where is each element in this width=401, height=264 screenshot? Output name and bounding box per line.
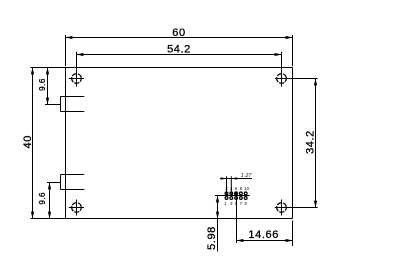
mounting hole H3 bottom-left: [72, 203, 82, 213]
svg-text:14.66: 14.66: [248, 229, 279, 241]
svg-text:54.2: 54.2: [167, 43, 191, 55]
connector tab P1 bottom edge: [61, 111, 85, 113]
arrow 60 left: [66, 36, 73, 39]
connector J1 pad pin 8: [240, 192, 243, 195]
arrow 54.2 right: [275, 53, 282, 56]
connector tab P2 left edge: [60, 175, 62, 190]
arrow 1.27 left (outside): [221, 177, 227, 180]
arrow 14.66 right: [286, 239, 293, 242]
pin numbers bottom row 1 3 5 7 9: [224, 201, 247, 206]
connector J1 pad pin 4: [230, 192, 233, 195]
dim 9.6 upper line: [47, 68, 49, 105]
arrow 40 top: [31, 68, 34, 75]
connector J1 pad pin 2: [225, 192, 228, 195]
connector tab P2 top edge: [61, 174, 85, 176]
arrow 14.66 left: [237, 239, 244, 242]
dim 9.6 upper extension (tab P1 centerline): [45, 104, 61, 106]
hole H3 centerline vertical: [76, 200, 78, 216]
board outline top edge (extended left for 40 dim): [30, 67, 292, 69]
dim 1.27 line: [220, 178, 252, 180]
connector J1 pad pin 7: [240, 197, 243, 200]
connector J1 pad pin 5: [235, 197, 238, 200]
pin numbers top row 2 4 6 8 10: [225, 186, 249, 191]
board outline right edge: [292, 68, 294, 219]
dim 60 extension right: [292, 35, 294, 66]
arrow 9.6 lower top: [48, 183, 51, 190]
connector tab P1 top edge: [61, 96, 85, 98]
dim 34.2 line: [315, 79, 317, 208]
hole H4 centerline vertical: [281, 200, 283, 216]
connector J1 pad pin 9: [244, 197, 247, 200]
arrow 54.2 left: [77, 53, 84, 56]
svg-text:10: 10: [244, 186, 249, 191]
arrow 9.6 lower bottom: [48, 212, 51, 219]
arrow 34.2 top: [314, 79, 317, 86]
svg-text:9.6: 9.6: [38, 78, 47, 91]
svg-text:1.27: 1.27: [241, 173, 252, 179]
arrow 34.2 bottom: [314, 201, 317, 208]
dim 1.27 extension right (pad column 2): [230, 176, 232, 195]
connector J1 pad pin 3: [230, 197, 233, 200]
dim 60 line: [66, 37, 293, 39]
connector J1 pad pin 1: [225, 197, 228, 200]
arrow 60 right: [286, 36, 293, 39]
dim 60 extension left: [65, 35, 67, 66]
svg-text:5.98: 5.98: [206, 226, 218, 250]
connector J1 pad pin 6 (filled, ext line origin): [235, 192, 238, 195]
dim 5.98 extension (connector row centerline): [215, 195, 250, 197]
dim 1.27 extension left (pad column 1): [226, 176, 228, 195]
dim 14.66 line: [237, 240, 293, 242]
dim 5.98 line: [217, 196, 219, 252]
connector J1 pad pin 10: [244, 192, 247, 195]
arrow 1.27 right (outside): [231, 177, 237, 180]
board outline left edge: [65, 68, 67, 219]
svg-text:60: 60: [172, 27, 185, 39]
arrow 9.6 upper top: [46, 68, 49, 75]
arrow 9.6 upper bottom: [46, 98, 49, 105]
dim 54.2 extension left (through hole H1): [76, 52, 78, 87]
hole H1 centerline horizontal: [69, 78, 84, 80]
dim 14.66 extension right (board edge extended): [292, 221, 294, 247]
mounting hole H4 bottom-right: [277, 203, 287, 213]
arrow 5.98 bottom: [216, 212, 219, 219]
dim 9.6 lower extension (tab P2 centerline): [47, 182, 61, 184]
connector tab P1 left edge: [60, 97, 62, 112]
mounting hole H1 top-left: [72, 74, 82, 84]
connector tab P2 bottom edge: [61, 189, 85, 191]
board outline bottom edge (extended left for 40 dim): [30, 218, 292, 220]
dim 14.66 extension left (from pad column 3): [236, 192, 238, 243]
svg-text:40: 40: [22, 135, 34, 148]
arrow 5.98 top: [216, 196, 219, 203]
dim 34.2 extension top (through hole H2): [275, 78, 318, 80]
hole H3 centerline horizontal: [69, 207, 84, 209]
dim 54.2 extension right (through hole H2): [281, 52, 283, 87]
dim 34.2 extension bottom (through hole H4): [275, 207, 318, 209]
svg-text:9.6: 9.6: [38, 192, 47, 205]
arrow 40 bottom: [31, 212, 34, 219]
mounting hole H2 top-right: [277, 74, 287, 84]
dim 54.2 line: [77, 54, 282, 56]
dim 40 line: [32, 68, 34, 219]
svg-text:34.2: 34.2: [305, 130, 317, 154]
dim 9.6 lower line: [49, 183, 51, 219]
